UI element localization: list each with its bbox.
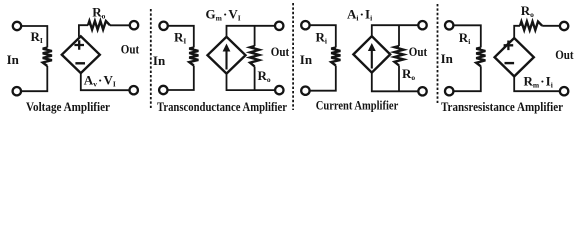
wire source bottom to output bottom (panel 3): [372, 73, 419, 92]
svg-text:RI: RI: [31, 29, 43, 45]
wire source bottom to output bottom (panel 2): [227, 74, 276, 91]
svg-text:Rm · Ii: Rm · Ii: [524, 74, 553, 90]
wire Ro to bottom rail (panel 3): [398, 66, 400, 92]
resistor Ri (panel 1): [43, 48, 52, 67]
svg-text:Gm · VI: Gm · VI: [206, 7, 241, 23]
arrow of current source (panel 2): [225, 50, 227, 70]
wire source top to Ro (panel 4): [514, 26, 520, 38]
output terminal (top, panel 3): [418, 21, 426, 29]
resistor Ro (panel 2): [250, 46, 259, 67]
svg-text:Ro: Ro: [92, 4, 105, 20]
minus sign (panel 1 source): [75, 62, 85, 64]
wire source top to output rail (panel 2): [227, 26, 276, 37]
dashed separator 3: [437, 4, 439, 103]
svg-text:Ri: Ri: [316, 30, 327, 46]
dependent voltage source Av*Vi (panel 1): [62, 36, 100, 73]
svg-text:Ro: Ro: [402, 66, 415, 82]
input terminal (top, panel 4): [445, 21, 453, 29]
wire rail down to Ro (panel 3): [398, 25, 400, 46]
wire Ri to input bottom (panel 2): [168, 66, 194, 91]
output terminal (top, panel 1): [130, 21, 138, 29]
wire Ro to output top (panel 4): [542, 25, 560, 27]
input terminal (bottom, panel 4): [445, 87, 453, 95]
svg-text:In: In: [153, 53, 166, 68]
dashed separator 1: [150, 9, 152, 108]
resistor Ro (panel 3): [394, 46, 403, 66]
plus sign (panel 1 source): [74, 40, 84, 50]
dependent voltage source Rm*Ii (panel 4): [495, 38, 534, 76]
svg-text:RI: RI: [174, 29, 186, 45]
minus sign (panel 4 source): [505, 62, 515, 64]
wire input top to Ri (panel 2): [168, 26, 194, 48]
svg-text:In: In: [7, 52, 20, 67]
wire Ri to input bottom (panel 4): [453, 66, 480, 91]
svg-text:Ro: Ro: [258, 68, 271, 84]
wire input top to Ri (panel 1): [21, 26, 47, 48]
output terminal (top, panel 2): [275, 22, 283, 30]
input terminal (bottom, panel 3): [301, 87, 309, 95]
svg-text:Av · VI: Av · VI: [84, 73, 116, 89]
svg-text:Out: Out: [409, 44, 428, 59]
svg-text:Current Amplifier: Current Amplifier: [316, 98, 399, 112]
resistor Ro (panel 4): [520, 22, 542, 31]
input terminal (top, panel 2): [159, 22, 167, 30]
svg-text:Out: Out: [121, 42, 140, 57]
wire source bottom to output bottom (panel 4): [514, 76, 560, 91]
input terminal (bottom, panel 2): [159, 86, 167, 94]
svg-text:In: In: [300, 52, 313, 67]
wire Ri to input bottom (panel 3): [310, 66, 336, 91]
dependent current source Gm*Vi (panel 2): [208, 37, 246, 74]
resistor Ri (panel 4): [476, 48, 485, 67]
output terminal (top, panel 4): [560, 22, 568, 30]
input terminal (top, panel 1): [13, 22, 21, 30]
wire Ri to input bottom (panel 1): [21, 66, 47, 91]
svg-text:Out: Out: [555, 47, 574, 62]
input terminal (bottom, panel 1): [13, 87, 21, 95]
resistor Ro (panel 1): [88, 21, 110, 30]
svg-text:Transconductance Amplifier: Transconductance Amplifier: [157, 100, 287, 114]
resistor Ri (panel 2): [189, 48, 198, 66]
input terminal (top, panel 3): [301, 21, 309, 29]
resistor Ri (panel 3): [331, 48, 340, 66]
dependent current source Ai*Ii (panel 3): [353, 36, 390, 72]
output terminal (bottom, panel 2): [275, 86, 283, 94]
wire source top to Ro (panel 1): [79, 25, 88, 37]
svg-text:Ro: Ro: [521, 3, 534, 19]
output terminal (bottom, panel 1): [130, 86, 138, 94]
svg-text:Ri: Ri: [459, 30, 470, 46]
plus sign (panel 4 source): [504, 41, 514, 51]
wire Ro to output top (panel 1): [110, 24, 130, 26]
wire input top to Ri (panel 3): [310, 25, 336, 47]
svg-text:Transresistance Amplifier: Transresistance Amplifier: [441, 100, 563, 114]
wire input top to Ri (panel 4): [453, 25, 480, 47]
wire source bottom to output bottom (panel 1): [81, 73, 130, 90]
dashed separator 2: [292, 3, 294, 110]
output terminal (bottom, panel 3): [418, 87, 426, 95]
wire Ro to bottom rail (panel 2): [254, 67, 256, 91]
svg-text:In: In: [441, 51, 454, 66]
svg-text:Ai · Ii: Ai · Ii: [347, 7, 372, 23]
wire rail down to Ro (panel 2): [254, 26, 256, 46]
svg-text:Out: Out: [271, 44, 290, 59]
svg-text:Voltage Amplifier: Voltage Amplifier: [26, 100, 110, 114]
wire source top to output rail (panel 3): [372, 25, 419, 36]
arrow of current source (panel 3): [371, 49, 373, 69]
output terminal (bottom, panel 4): [560, 87, 568, 95]
